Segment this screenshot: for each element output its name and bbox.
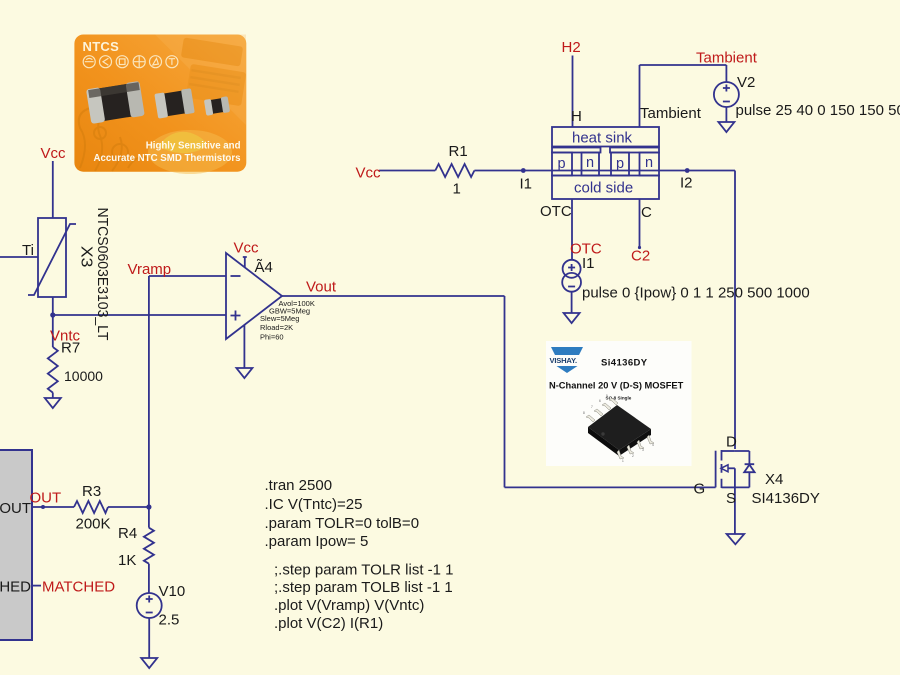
TEC cell n1 xyxy=(582,153,600,176)
svg-text:R4: R4 xyxy=(118,525,137,542)
svg-text:5: 5 xyxy=(606,394,608,398)
wire Ti lead xyxy=(0,256,38,258)
wire OTC xyxy=(571,199,573,260)
Vishay Si4136DY product image xyxy=(546,341,692,466)
wire H xyxy=(572,56,574,128)
SO-8 package drawing xyxy=(583,394,654,463)
svg-text:heat sink: heat sink xyxy=(572,130,633,147)
svg-text:Highly Sensitive and: Highly Sensitive and xyxy=(146,141,241,152)
svg-text:Slew=5Meg: Slew=5Meg xyxy=(260,314,299,323)
MOSFET X4 drain stub xyxy=(722,450,735,452)
svg-text:1: 1 xyxy=(622,459,624,463)
TEC cell letters xyxy=(558,155,654,172)
svg-text:Vout: Vout xyxy=(306,279,337,296)
svg-text:;.step param TOLB list -1 1: ;.step param TOLB list -1 1 xyxy=(274,579,453,596)
svg-text:Vcc: Vcc xyxy=(41,145,67,162)
svg-text:Accurate NTC SMD Thermistors: Accurate NTC SMD Thermistors xyxy=(94,153,241,164)
TEC heat sink box xyxy=(552,127,659,147)
vishay logo xyxy=(551,347,583,355)
wire I2 vertical to drain xyxy=(734,171,736,450)
svg-text:R3: R3 xyxy=(82,483,101,500)
svg-text:pulse 0 {Ipow} 0 1 1 250 500 1: pulse 0 {Ipow} 0 1 1 250 500 1000 xyxy=(582,285,810,302)
wire Tambient vertical xyxy=(639,65,641,127)
svg-text:2.5: 2.5 xyxy=(159,612,180,629)
wire gate lead xyxy=(505,486,716,488)
NTCS card SMD chip small xyxy=(204,96,230,116)
svg-text:D: D xyxy=(726,434,737,451)
node OUT label dot xyxy=(41,505,45,509)
TEC cell p2 xyxy=(611,153,629,176)
wire C2 xyxy=(639,199,641,248)
svg-text:p: p xyxy=(558,156,566,172)
resistor R7 xyxy=(48,347,58,393)
MOSFET X4 body diode lead xyxy=(735,451,750,487)
svg-text:OUT: OUT xyxy=(0,500,31,517)
svg-text:OUT: OUT xyxy=(30,490,62,507)
svg-text:OTC: OTC xyxy=(540,203,572,220)
svg-text:Vramp: Vramp xyxy=(128,261,172,278)
wire MATCHED stub xyxy=(32,585,41,587)
svg-text:3: 3 xyxy=(642,448,644,452)
thermistor X3 body xyxy=(38,218,66,297)
wire Vramp horizontal xyxy=(149,275,226,277)
svg-text:R7: R7 xyxy=(61,340,80,357)
spice directives group 2 xyxy=(274,562,454,633)
svg-text:6: 6 xyxy=(599,399,601,403)
spice directives group 1 xyxy=(265,477,420,550)
MOSFET X4 channel segments xyxy=(721,450,723,488)
svg-text:.param Ipow= 5: .param Ipow= 5 xyxy=(265,533,369,550)
TEC top bar left xyxy=(552,148,601,153)
node I2 xyxy=(685,168,690,173)
MOSFET X4 source stub xyxy=(722,486,735,488)
svg-text:n: n xyxy=(586,155,594,171)
svg-text:.plot V(Vramp) V(Vntc): .plot V(Vramp) V(Vntc) xyxy=(274,597,424,614)
node I1 xyxy=(521,168,526,173)
svg-text:n: n xyxy=(645,155,653,171)
node R3/R4/Vramp junction xyxy=(146,504,151,509)
svg-text:MATCHED: MATCHED xyxy=(0,579,31,596)
NTCS card icon row xyxy=(83,56,178,68)
voltage source V10 xyxy=(137,593,162,618)
wire Vcc to R1 xyxy=(379,170,435,172)
TEC cold side box xyxy=(552,176,659,200)
svg-text:X3: X3 xyxy=(78,246,95,268)
svg-text:S: S xyxy=(726,490,736,507)
thermistor X3 diagonal xyxy=(28,224,76,295)
wire R7 to ground xyxy=(52,393,54,399)
op-amp parameters xyxy=(260,299,315,342)
svg-text:G: G xyxy=(694,481,706,498)
svg-text:N-Channel 20 V (D-S) MOSFET: N-Channel 20 V (D-S) MOSFET xyxy=(549,381,684,391)
wire V10 to ground xyxy=(148,618,150,658)
ground X4 xyxy=(727,534,745,544)
svg-text:SI4136DY: SI4136DY xyxy=(752,490,820,507)
op-amp minus input mark xyxy=(231,275,241,277)
node C2 wire end xyxy=(638,246,641,249)
svg-text:V2: V2 xyxy=(737,74,755,91)
svg-text:.tran 2500: .tran 2500 xyxy=(265,477,333,494)
svg-text:.param TOLR=0 tolB=0: .param TOLR=0 tolB=0 xyxy=(265,515,420,532)
svg-text:200K: 200K xyxy=(76,516,111,533)
wire Tambient horizontal xyxy=(640,64,727,66)
svg-text:.plot V(C2) I(R1): .plot V(C2) I(R1) xyxy=(274,615,383,632)
svg-text:7: 7 xyxy=(591,405,593,409)
ground op-amp xyxy=(236,368,252,378)
TEC cell p1 xyxy=(552,153,572,176)
svg-text:Vcc: Vcc xyxy=(356,165,382,182)
wire thermistor to Vntc junction xyxy=(52,297,54,347)
current source I1 xyxy=(563,260,581,278)
wire Vcc to thermistor xyxy=(52,161,54,218)
ground I1 xyxy=(564,313,580,323)
svg-text:10000: 10000 xyxy=(64,368,103,384)
wire op-amp output xyxy=(282,295,505,297)
svg-text:I2: I2 xyxy=(680,175,693,192)
svg-text:MATCHED: MATCHED xyxy=(42,579,115,596)
svg-text:VISHAY.: VISHAY. xyxy=(550,356,578,365)
resistor R3 xyxy=(74,501,108,513)
resistor R4 xyxy=(144,528,154,564)
svg-text:;.step param TOLR list -1 1: ;.step param TOLR list -1 1 xyxy=(274,562,454,579)
svg-text:Tambient: Tambient xyxy=(640,105,702,122)
svg-text:cold side: cold side xyxy=(574,180,633,197)
wire Vramp vertical xyxy=(148,276,150,507)
svg-text:Si4136DY: Si4136DY xyxy=(601,358,648,369)
wire block OUT to R3 xyxy=(32,506,74,508)
svg-text:1K: 1K xyxy=(118,552,136,569)
svg-text:Tambient: Tambient xyxy=(696,50,758,67)
MOSFET X4 source wire to ground xyxy=(734,468,736,533)
svg-text:Ti: Ti xyxy=(22,242,34,259)
svg-text:H2: H2 xyxy=(562,39,581,56)
voltage source V2 xyxy=(714,82,739,107)
svg-text:4: 4 xyxy=(652,443,654,447)
svg-text:NTCS0603E3103_LT: NTCS0603E3103_LT xyxy=(94,208,111,341)
svg-text:.IC V(Tntc)=25: .IC V(Tntc)=25 xyxy=(265,496,363,513)
svg-text:1: 1 xyxy=(453,181,461,198)
wire R3 to junction xyxy=(108,506,149,508)
svg-text:Phi=60: Phi=60 xyxy=(260,333,284,342)
ground V10 xyxy=(141,658,157,668)
svg-text:C: C xyxy=(641,204,652,221)
wire Vout vertical xyxy=(504,296,506,487)
MOSFET X4 gate bar xyxy=(715,451,717,488)
svg-text:X4: X4 xyxy=(765,471,783,488)
svg-text:H: H xyxy=(571,108,582,125)
TEC top bar right xyxy=(610,148,659,153)
MOSFET X4 body arrow xyxy=(721,465,728,472)
svg-text:Rload=2K: Rload=2K xyxy=(260,323,293,332)
op-amp ground stub xyxy=(243,325,245,369)
svg-text:Vcc: Vcc xyxy=(234,240,260,257)
wire Vntc to op-amp plus xyxy=(53,314,226,316)
wire R4 to V10 xyxy=(148,564,150,593)
svg-text:2: 2 xyxy=(632,454,634,458)
op-amp A4 triangle xyxy=(226,253,282,339)
svg-text:pulse 25 40 0 150 150 50: pulse 25 40 0 150 150 50 xyxy=(736,102,900,119)
MOSFET X4 body diode triangle xyxy=(744,464,754,472)
hierarchical block (bottom-left) xyxy=(0,450,32,640)
ground R7 xyxy=(45,398,61,408)
svg-text:C2: C2 xyxy=(631,248,650,265)
svg-text:R1: R1 xyxy=(449,143,468,160)
wire R1 to TEC and I2 xyxy=(474,170,735,172)
wire junction to R4 xyxy=(148,507,150,528)
op-amp Vcc stub xyxy=(243,257,247,267)
TEC cell n2 xyxy=(640,153,660,176)
svg-text:Ã4: Ã4 xyxy=(255,259,273,276)
NTCS card SMD chip medium xyxy=(154,88,194,118)
wire I1 to ground xyxy=(571,292,573,313)
svg-text:8: 8 xyxy=(583,411,585,415)
MOSFET X4 body stub xyxy=(728,467,735,469)
node Vntc junction xyxy=(50,312,55,317)
svg-text:NTCS: NTCS xyxy=(83,39,120,54)
NTCS product image card xyxy=(74,35,246,175)
NTCS card SMD chip large xyxy=(86,81,145,124)
svg-text:I1: I1 xyxy=(520,176,533,193)
svg-text:p: p xyxy=(616,156,624,172)
svg-text:I1: I1 xyxy=(582,255,595,272)
ground V2 xyxy=(718,122,734,132)
op-amp plus input mark xyxy=(231,311,241,321)
svg-text:V10: V10 xyxy=(159,583,186,600)
resistor R1 xyxy=(435,164,474,177)
